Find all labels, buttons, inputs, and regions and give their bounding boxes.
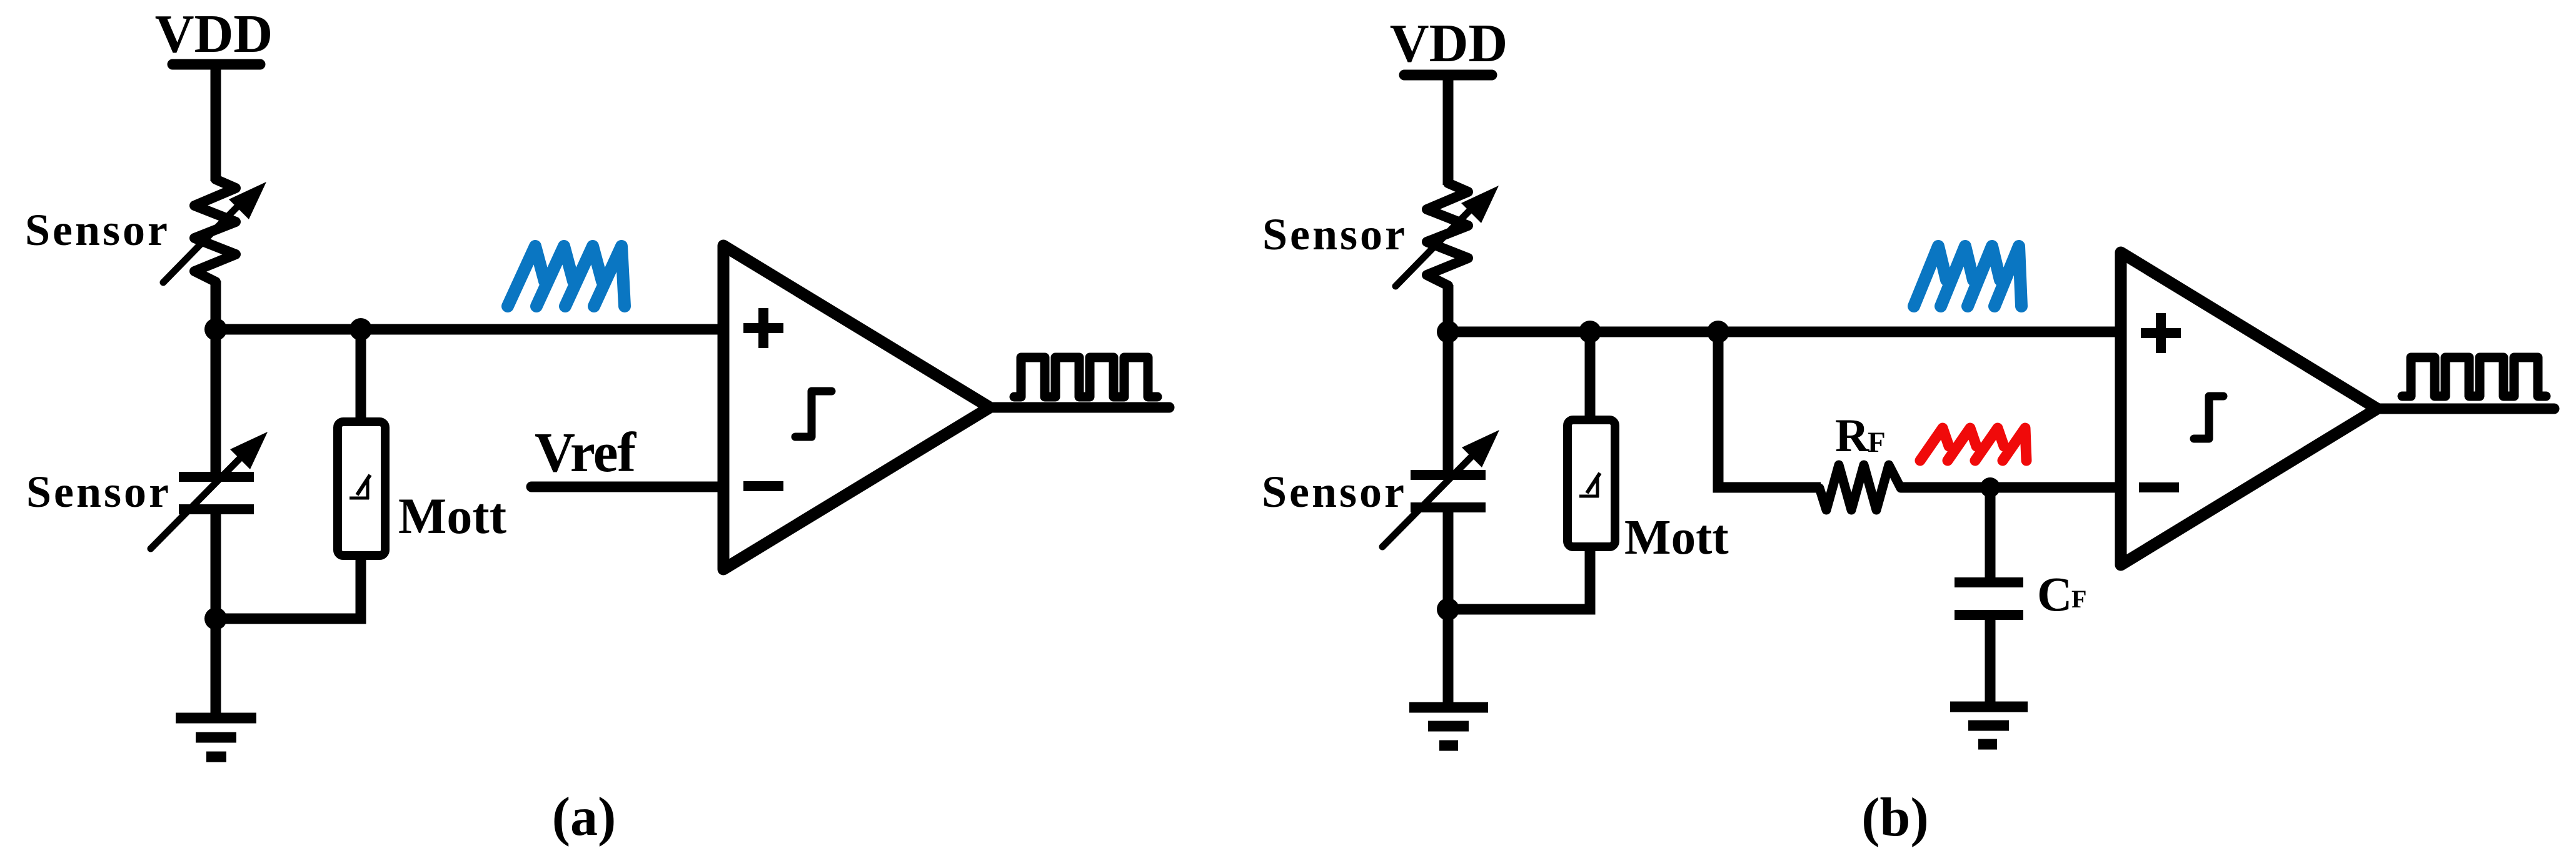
svg-text:Sensor: Sensor: [25, 205, 170, 255]
svg-text:(a): (a): [552, 787, 616, 847]
svg-text:Mott: Mott: [1624, 511, 1729, 565]
svg-text:Sensor: Sensor: [26, 467, 171, 517]
svg-text:F: F: [1868, 426, 1886, 459]
svg-text:F: F: [2071, 585, 2086, 613]
svg-text:VDD: VDD: [155, 3, 273, 64]
svg-text:C: C: [2037, 567, 2072, 621]
svg-text:Sensor: Sensor: [1262, 467, 1407, 517]
svg-text:Vref: Vref: [535, 422, 636, 484]
svg-text:(b): (b): [1861, 787, 1929, 848]
svg-text:VDD: VDD: [1390, 12, 1508, 73]
svg-text:R: R: [1835, 410, 1869, 462]
svg-text:Sensor: Sensor: [1262, 209, 1407, 259]
svg-text:Mott: Mott: [398, 487, 506, 544]
